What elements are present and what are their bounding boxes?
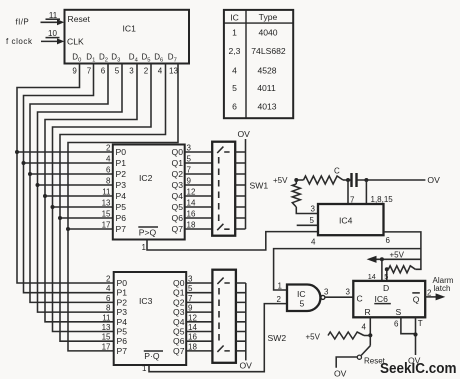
svg-text:3: 3 — [188, 275, 193, 284]
svg-text:SeekIC.com: SeekIC.com — [380, 361, 457, 377]
junction D7 — [66, 227, 70, 231]
svg-text:Q3: Q3 — [173, 307, 185, 317]
wire D6 bus — [60, 64, 166, 342]
wire D-node to IC5 input 1 — [274, 249, 421, 290]
svg-text:13: 13 — [169, 67, 178, 76]
svg-text:4528: 4528 — [257, 65, 276, 75]
DIP switch SW1 — [212, 142, 235, 236]
svg-text:OV: OV — [427, 175, 440, 185]
svg-text:D3: D3 — [111, 53, 120, 64]
svg-text:Q0: Q0 — [172, 147, 184, 157]
comparator IC3 — [114, 272, 187, 365]
svg-text:11: 11 — [102, 188, 111, 197]
svg-text:5: 5 — [384, 272, 388, 281]
svg-text:P4: P4 — [116, 191, 127, 201]
svg-text:1,8,15: 1,8,15 — [371, 195, 394, 204]
svg-text:SW2: SW2 — [268, 333, 287, 343]
svg-text:P2: P2 — [117, 297, 128, 307]
svg-text:6: 6 — [232, 102, 237, 112]
svg-text:12: 12 — [188, 313, 197, 322]
pin 11 underline — [46, 18, 61, 20]
junction S/T node — [413, 332, 417, 336]
svg-text:Type: Type — [259, 12, 278, 22]
svg-text:Q7: Q7 — [172, 224, 184, 234]
svg-text:14: 14 — [187, 199, 196, 208]
svg-text:1: 1 — [142, 364, 147, 373]
junction D4 — [43, 194, 47, 198]
+5V arrow (D pull-up) — [376, 258, 421, 260]
junction +5V rail — [294, 178, 298, 182]
svg-text:P6: P6 — [117, 336, 128, 346]
svg-text:C: C — [334, 167, 340, 176]
svg-text:+5V: +5V — [273, 176, 288, 185]
svg-text:Q5: Q5 — [173, 327, 185, 337]
svg-text:5: 5 — [187, 155, 192, 164]
svg-text:+5V: +5V — [306, 333, 321, 342]
IC5 pin3 output wire to IC6 C — [325, 296, 353, 298]
svg-text:P7: P7 — [116, 224, 127, 234]
capacitor C plates — [350, 173, 352, 187]
svg-text:D5: D5 — [142, 53, 151, 64]
svg-text:13: 13 — [102, 199, 111, 208]
resistor R2 (vertical to pin3) — [295, 180, 297, 184]
svg-text:4: 4 — [311, 238, 316, 247]
junction D5 — [51, 205, 55, 209]
svg-text:P6: P6 — [116, 213, 127, 223]
svg-text:Q0: Q0 — [173, 278, 185, 288]
junction D6 — [58, 216, 62, 220]
wire D2 bus — [30, 64, 114, 303]
svg-text:1: 1 — [142, 243, 147, 252]
flip-flop IC6 — [353, 281, 425, 317]
svg-text:4: 4 — [158, 67, 163, 76]
DIP switch SW2 — [212, 270, 236, 363]
resistor R3 (D pull-up) — [388, 266, 415, 273]
wire capacitor to 0V — [357, 179, 426, 181]
svg-text:2,3: 2,3 — [229, 46, 241, 56]
svg-text:3: 3 — [346, 287, 351, 296]
svg-text:Q4: Q4 — [172, 191, 184, 201]
SW2 common bus stubs — [236, 283, 246, 351]
switch Reset lever — [361, 346, 370, 356]
svg-text:OV: OV — [334, 368, 347, 378]
svg-text:Q: Q — [413, 295, 420, 305]
wire D3 bus — [38, 64, 123, 313]
wire R node down to reset switch — [369, 335, 371, 345]
wire D0 bus (IC1 pin9 to IC2 P0 / IC3 P0) — [17, 64, 114, 284]
IC2 Q output wires to SW1 — [185, 152, 213, 229]
switch Reset pole circle — [357, 355, 361, 359]
wire SW1 bus to 0V — [245, 139, 247, 229]
svg-text:Q6: Q6 — [173, 336, 185, 346]
junction pin 1,8,15 — [364, 178, 368, 182]
svg-text:P>Q: P>Q — [139, 228, 157, 238]
junction D2 — [28, 172, 32, 176]
svg-text:4: 4 — [106, 284, 111, 293]
svg-text:Q7: Q7 — [173, 346, 185, 356]
svg-text:8: 8 — [106, 304, 111, 313]
svg-text:f clock: f clock — [6, 37, 33, 46]
wire R2 to IC4 pin3 — [296, 207, 318, 214]
svg-text:4: 4 — [106, 155, 111, 164]
svg-text:7: 7 — [188, 294, 193, 303]
svg-text:IC6: IC6 — [375, 294, 389, 304]
svg-text:Q4: Q4 — [173, 317, 185, 327]
wire resistor to capacitor — [343, 179, 352, 181]
svg-text:6: 6 — [394, 320, 399, 329]
svg-text:P4: P4 — [117, 317, 128, 327]
junction capacitor left / pin7 — [346, 178, 350, 182]
svg-text:15: 15 — [102, 210, 111, 219]
svg-text:fI/P: fI/P — [16, 18, 30, 27]
svg-text:18: 18 — [188, 342, 197, 351]
svg-text:2: 2 — [427, 288, 432, 297]
svg-text:9: 9 — [188, 304, 193, 313]
svg-text:OV: OV — [240, 361, 253, 371]
svg-text:CLK: CLK — [67, 37, 84, 47]
svg-text:4040: 4040 — [258, 28, 277, 38]
IC6 pin5 stub — [386, 269, 388, 281]
IC6 pin6 S stub — [401, 317, 416, 333]
junction D0 — [15, 150, 19, 154]
wire D5 bus — [53, 64, 152, 332]
wire arrow into Reset — [41, 21, 59, 23]
svg-text:D1: D1 — [86, 53, 95, 64]
svg-text:2: 2 — [144, 67, 149, 76]
svg-text:4011: 4011 — [257, 83, 276, 93]
svg-text:6: 6 — [101, 67, 106, 76]
svg-text:P1: P1 — [117, 288, 128, 298]
IC4 pin5 wire — [297, 224, 318, 226]
svg-text:IC2: IC2 — [139, 173, 153, 183]
svg-text:Q2: Q2 — [172, 169, 184, 179]
IC5 output bubble — [321, 295, 325, 299]
svg-text:D6: D6 — [154, 53, 163, 64]
svg-text:IC4: IC4 — [339, 216, 353, 226]
IC4 pin7 stub — [347, 180, 349, 204]
svg-text:3: 3 — [324, 287, 329, 296]
svg-text:IC1: IC1 — [123, 24, 137, 34]
svg-text:74LS682: 74LS682 — [251, 46, 286, 56]
comparator IC2 — [113, 145, 185, 240]
svg-text:R: R — [365, 307, 371, 317]
svg-text:P5: P5 — [116, 202, 127, 212]
svg-text:3: 3 — [129, 67, 134, 76]
svg-text:6: 6 — [106, 166, 111, 175]
junction R node — [368, 333, 372, 337]
svg-text:P3: P3 — [117, 307, 128, 317]
IC6 pin4 R stub — [369, 317, 371, 335]
svg-text:D0: D0 — [72, 53, 81, 64]
resistor R1 (monostable) — [296, 179, 303, 181]
svg-text:OV: OV — [238, 129, 251, 139]
svg-text:P7: P7 — [117, 346, 128, 356]
wire D4 bus — [45, 64, 137, 322]
svg-text:4: 4 — [362, 323, 367, 332]
IC type table — [224, 10, 293, 118]
svg-text:12: 12 — [187, 188, 196, 197]
svg-text:+5V: +5V — [390, 251, 405, 260]
svg-text:P3: P3 — [116, 180, 127, 190]
svg-text:3: 3 — [187, 144, 192, 153]
svg-text:2: 2 — [106, 275, 111, 284]
svg-text:D4: D4 — [129, 53, 139, 64]
svg-text:latch: latch — [434, 284, 451, 293]
junction IC6 pin5 — [385, 267, 389, 271]
svg-text:P2: P2 — [116, 169, 127, 179]
counter IC1 — [65, 10, 190, 64]
svg-text:9: 9 — [72, 67, 77, 76]
svg-text:Q3: Q3 — [172, 180, 184, 190]
svg-text:14: 14 — [368, 272, 376, 281]
wire IC4 pin6 to D-node rail — [384, 232, 421, 269]
svg-text:C: C — [357, 294, 363, 304]
svg-text:1: 1 — [232, 28, 237, 38]
resistor R4 (reset pull-up) — [364, 335, 370, 337]
wire arrow into CLK — [41, 40, 59, 42]
svg-text:Q1: Q1 — [173, 288, 185, 298]
wire SW2 bus to 0V — [245, 283, 247, 360]
svg-text:P·Q: P·Q — [144, 351, 160, 361]
svg-text:D7: D7 — [168, 53, 177, 64]
svg-text:7: 7 — [87, 67, 92, 76]
svg-text:15: 15 — [102, 333, 111, 342]
svg-text:P0: P0 — [117, 278, 128, 288]
svg-text:P1: P1 — [116, 158, 127, 168]
svg-text:8: 8 — [106, 177, 111, 186]
svg-text:Q6: Q6 — [172, 213, 184, 223]
svg-text:4013: 4013 — [257, 102, 276, 112]
svg-text:6: 6 — [386, 236, 391, 245]
monostable IC4 — [318, 204, 384, 235]
junction IC6 pin14 — [380, 257, 384, 261]
svg-text:D2: D2 — [99, 53, 108, 64]
wire reset switch to 0V — [336, 357, 357, 368]
svg-text:13: 13 — [102, 323, 111, 332]
svg-text:5: 5 — [232, 83, 237, 93]
svg-text:2: 2 — [277, 295, 282, 304]
svg-text:5: 5 — [188, 284, 193, 293]
svg-text:11: 11 — [102, 313, 111, 322]
IC4 pin 1,8,15 stub — [365, 180, 367, 204]
svg-text:4: 4 — [232, 65, 237, 75]
svg-text:18: 18 — [187, 221, 196, 230]
svg-text:IC3: IC3 — [139, 296, 153, 306]
svg-text:T: T — [418, 319, 423, 328]
pin 10 underline — [46, 37, 60, 39]
svg-text:17: 17 — [102, 342, 111, 351]
SW1 common bus stubs — [235, 152, 245, 229]
svg-text:5: 5 — [310, 216, 315, 225]
wire D7 bus — [68, 64, 178, 351]
svg-text:7: 7 — [187, 166, 192, 175]
svg-text:Reset: Reset — [68, 14, 91, 24]
svg-text:17: 17 — [102, 221, 111, 230]
svg-text:IC: IC — [230, 12, 239, 22]
svg-text:9: 9 — [187, 177, 192, 186]
svg-text:P5: P5 — [117, 327, 128, 337]
svg-text:6: 6 — [106, 294, 111, 303]
svg-text:Q1: Q1 — [172, 158, 184, 168]
svg-text:1: 1 — [278, 282, 283, 291]
svg-text:3: 3 — [311, 205, 316, 214]
IC3 Q output wires to SW2 — [186, 283, 212, 351]
svg-text:5: 5 — [115, 67, 120, 76]
svg-text:16: 16 — [187, 210, 196, 219]
svg-text:S: S — [396, 307, 402, 317]
nand gate IC5 — [287, 285, 320, 312]
svg-text:SW1: SW1 — [250, 181, 269, 191]
svg-text:P0: P0 — [116, 147, 127, 157]
svg-text:2: 2 — [106, 144, 111, 153]
junction D3 — [36, 183, 40, 187]
IC6 T terminal stub — [415, 317, 417, 355]
svg-text:Q2: Q2 — [173, 297, 185, 307]
wire D1 bus — [24, 64, 114, 293]
svg-text:14: 14 — [188, 323, 197, 332]
svg-text:IC: IC — [297, 289, 306, 299]
svg-text:Q5: Q5 — [172, 202, 184, 212]
wire Q output to Alarm latch — [425, 296, 436, 298]
svg-text:16: 16 — [188, 333, 197, 342]
IC6 pin14 stub — [381, 259, 383, 281]
junction D1 — [22, 161, 26, 165]
svg-text:D: D — [383, 283, 389, 293]
svg-text:5: 5 — [300, 299, 305, 309]
